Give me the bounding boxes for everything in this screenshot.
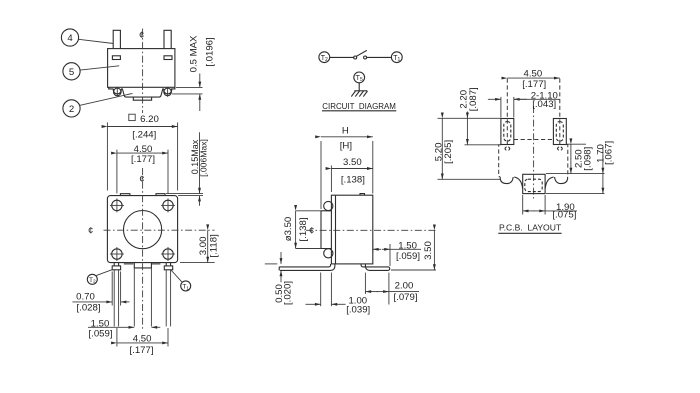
center pushbutton circle <box>124 211 162 249</box>
top index tab <box>360 194 365 196</box>
svg-text:2: 2 <box>69 104 74 115</box>
svg-text:CIRCUIT DIAGRAM: CIRCUIT DIAGRAM <box>322 101 396 111</box>
right contact <box>364 56 367 59</box>
left terminal post <box>113 30 120 48</box>
base / contact plate outline <box>109 87 175 97</box>
left vent slot <box>112 56 120 60</box>
svg-text:[.177]: [.177] <box>522 79 546 90</box>
dimension dia 3.50 [.138] stem <box>283 211 321 249</box>
dimension 2-1.10 [.043] <box>488 91 560 118</box>
upper side bump <box>324 201 333 210</box>
base center boss <box>133 97 151 100</box>
lead arc marks below right slot <box>557 147 562 151</box>
wire T2 to contact <box>330 56 354 58</box>
svg-text:[.244]: [.244] <box>132 129 156 140</box>
right slot pad outline <box>553 119 566 145</box>
svg-text:H: H <box>342 126 349 137</box>
svg-text:[.205]: [.205] <box>443 140 454 164</box>
svg-text:[.177]: [.177] <box>129 345 153 356</box>
dimension 4.50 [.177] bottom <box>117 328 168 356</box>
dimension 2.00 [.079] <box>365 273 419 305</box>
svg-text:[.098]: [.098] <box>583 147 594 171</box>
right slot centerline <box>559 79 561 147</box>
terminal T5 circle <box>354 72 365 83</box>
svg-text:[.020]: [.020] <box>282 281 293 305</box>
body inner seam line <box>335 195 337 264</box>
dimension 4.50 [.177] pcb <box>507 69 560 90</box>
vertical centerline plan view <box>139 168 144 331</box>
left contact <box>354 56 357 59</box>
right terminal post <box>164 30 171 48</box>
body outline dashed top between slots <box>514 139 554 141</box>
svg-text:ø3.50: ø3.50 <box>283 217 294 242</box>
svg-text:[.075]: [.075] <box>552 210 576 221</box>
callout 4 <box>61 29 113 46</box>
dimension 4.50 [.177] top <box>117 144 168 194</box>
dimension 1.90 [.075] <box>523 195 577 221</box>
svg-text:[.059]: [.059] <box>396 251 420 262</box>
dimension 2.50 [.098] <box>546 144 605 173</box>
svg-text:0.70: 0.70 <box>76 292 95 303</box>
dimension 1.70 [.067] <box>546 141 614 194</box>
svg-text:6.20: 6.20 <box>140 114 159 125</box>
svg-text:3.00: 3.00 <box>198 237 209 256</box>
terminal T1 pin extension lines <box>166 270 170 327</box>
svg-text:[.177]: [.177] <box>131 154 155 165</box>
corner hole top-left <box>110 198 124 212</box>
svg-text:[.118]: [.118] <box>209 234 220 257</box>
svg-text:[.079]: [.079] <box>393 292 417 303</box>
right gull-wing lead <box>361 264 390 271</box>
svg-text:[.0196]: [.0196] <box>204 37 215 66</box>
dimension 3.00 [.118] <box>180 230 220 262</box>
svg-text:[.138]: [.138] <box>298 217 309 241</box>
svg-text:T1: T1 <box>393 55 400 63</box>
callout 2 <box>63 93 133 117</box>
horizontal centerline plan view <box>88 226 215 237</box>
vertical centerline of elevation <box>139 29 144 114</box>
center ground tab <box>134 263 151 327</box>
left slot pad outline <box>501 119 514 145</box>
dimension 0.5 MAX <box>172 35 215 111</box>
right contact rivet <box>164 87 172 96</box>
svg-text:[H]: [H] <box>340 140 352 151</box>
dimension 1.50 [.059] lead <box>373 240 421 266</box>
svg-text:0.5 MAX: 0.5 MAX <box>189 35 200 72</box>
svg-text:¢: ¢ <box>139 174 144 185</box>
pcb view vertical centerline <box>533 106 535 199</box>
terminal T2 pin extension lines <box>114 270 118 327</box>
left slot hole dashed <box>504 122 511 142</box>
body outline dashed left edge <box>499 145 501 177</box>
body outline dashed bottom-right with arcs <box>545 176 568 188</box>
center ground pad hole dashed <box>525 179 542 191</box>
dimension 3.50 [.138] width <box>331 157 372 192</box>
right slot hole dashed <box>556 122 563 142</box>
svg-text:P.C.B. LAYOUT: P.C.B. LAYOUT <box>499 222 562 232</box>
lead arc marks below left slot <box>505 147 510 151</box>
left contact rivet <box>114 87 122 96</box>
dimension 3.50 vertical right <box>391 230 436 270</box>
corner hole bottom-right <box>161 247 175 261</box>
dimension 0.70 [.028] <box>72 272 129 314</box>
title P.C.B. LAYOUT <box>498 222 562 233</box>
dimension 5.20 [.205] <box>433 118 501 179</box>
svg-text:[.028]: [.028] <box>76 303 100 314</box>
dimension 1.00 [.039] <box>306 273 371 316</box>
corner hole top-right <box>161 198 175 212</box>
svg-text:¢: ¢ <box>88 226 93 237</box>
svg-text:3.50: 3.50 <box>423 241 434 260</box>
svg-text:4: 4 <box>67 33 73 44</box>
svg-text:2.00: 2.00 <box>395 281 414 292</box>
terminal T2 collar (bottom-left) <box>112 263 120 270</box>
label T2 <box>87 270 112 285</box>
lower side bump <box>324 249 333 258</box>
housing square body <box>107 196 177 263</box>
profile body <box>331 195 372 264</box>
svg-text:¢: ¢ <box>139 30 144 41</box>
ground symbol <box>351 91 367 97</box>
svg-text:[.039]: [.039] <box>346 305 370 316</box>
svg-text:[.043]: [.043] <box>532 99 556 110</box>
wire T5 to ground <box>358 83 360 91</box>
top edge bump left <box>120 194 129 196</box>
svg-text:4.50: 4.50 <box>133 334 152 345</box>
body outline dashed bottom-left with arcs <box>499 177 523 189</box>
svg-text:[.138]: [.138] <box>341 174 365 185</box>
dimension 0.15Max [.006Max] <box>166 132 209 206</box>
title CIRCUIT DIAGRAM <box>322 101 396 111</box>
svg-text:3.50: 3.50 <box>343 157 362 168</box>
plunger stem <box>321 211 331 249</box>
svg-text:T2: T2 <box>321 55 328 63</box>
switch body outline <box>108 49 175 88</box>
body outline dashed right edge <box>566 145 568 177</box>
label T1 <box>171 270 191 291</box>
dimension 1.50 [.059] bottom <box>88 318 160 339</box>
top edge bump right <box>156 194 165 196</box>
svg-text:¢: ¢ <box>309 226 314 237</box>
corner hole bottom-left <box>110 247 124 261</box>
terminal T1 circle <box>391 52 402 63</box>
callout 5 <box>63 63 119 80</box>
svg-text:[.087]: [.087] <box>468 87 479 111</box>
svg-text:[.059]: [.059] <box>88 329 112 340</box>
dimension square 6.20 [.244] <box>107 114 177 190</box>
dimension H [H] <box>321 126 373 209</box>
dimension 0.50 [.020] standoff <box>265 252 294 305</box>
dimension 2.20 [.087] <box>438 87 501 145</box>
svg-text:[.006Max]: [.006Max] <box>199 139 209 177</box>
left slot centerline <box>506 79 508 147</box>
horizontal centerline profile <box>306 226 436 237</box>
svg-text:5: 5 <box>69 67 74 78</box>
wire contact to T1 <box>367 56 392 58</box>
svg-text:T5: T5 <box>356 75 363 83</box>
center ground pad outline <box>523 174 545 193</box>
svg-text:[.067]: [.067] <box>603 141 614 165</box>
terminal T1 collar (bottom-right) <box>164 263 172 270</box>
terminal T2 circle <box>319 52 330 63</box>
switch lever <box>356 50 366 56</box>
bottom edge recess marks <box>124 263 161 265</box>
right vent slot <box>164 56 172 60</box>
left gull-wing lead <box>279 264 335 271</box>
